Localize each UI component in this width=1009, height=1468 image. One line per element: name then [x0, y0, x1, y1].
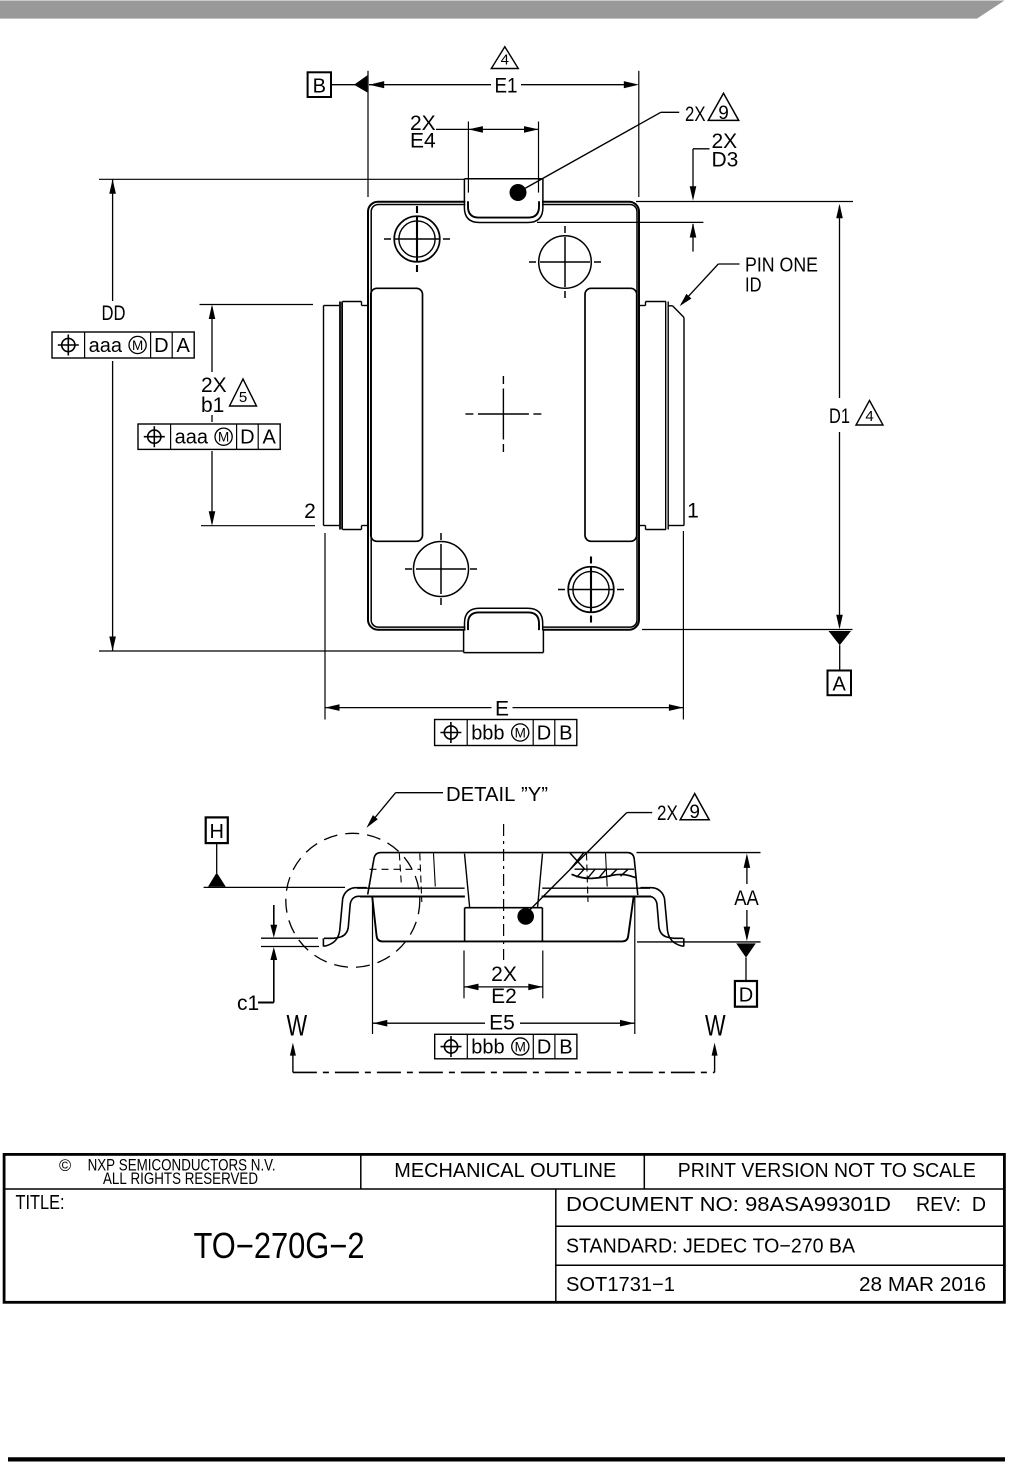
svg-text:A: A: [833, 674, 847, 696]
svg-text:9: 9: [689, 802, 700, 823]
svg-text:D: D: [537, 1037, 551, 1059]
PIN ONE ID leader: [680, 255, 818, 307]
center line (side): [503, 824, 505, 960]
leader 2X 9 (side): [517, 794, 709, 925]
svg-text:9: 9: [718, 103, 729, 124]
svg-text:B: B: [313, 75, 326, 97]
lower body: [372, 897, 633, 941]
svg-text:E1: E1: [495, 75, 518, 98]
svg-text:B: B: [559, 1037, 572, 1059]
dimension c1: [237, 905, 319, 1015]
svg-text:5: 5: [239, 389, 247, 406]
svg-text:DETAIL ”Y”: DETAIL ”Y”: [446, 784, 548, 806]
hole top-left (double circle): [384, 206, 450, 272]
svg-text:E: E: [495, 697, 509, 720]
svg-text:A: A: [263, 427, 277, 449]
header gray bar: [0, 1, 1005, 19]
svg-text:M: M: [218, 430, 229, 445]
svg-text:MECHANICAL OUTLINE: MECHANICAL OUTLINE: [394, 1160, 616, 1182]
svg-text:bbb: bbb: [471, 723, 504, 745]
datum flag H: [204, 817, 345, 887]
svg-text:4: 4: [501, 52, 509, 69]
body outline inner: [371, 205, 637, 628]
svg-text:2: 2: [304, 500, 316, 523]
lead pin 1 (right): [640, 302, 684, 530]
center tab (side): [465, 854, 543, 907]
feature frame bbb (top view): [435, 720, 577, 746]
leader 2X 9 (top view): [510, 93, 739, 201]
svg-text:aaa: aaa: [175, 427, 209, 449]
bottom rule: [8, 1457, 1005, 1461]
hole top-right: [529, 226, 601, 298]
svg-text:STANDARD: JEDEC TO−270 BA: STANDARD: JEDEC TO−270 BA: [566, 1236, 856, 1258]
svg-text:D1: D1: [829, 405, 850, 428]
svg-text:PIN ONE: PIN ONE: [745, 255, 818, 277]
svg-text:©: ©: [59, 1157, 71, 1175]
svg-text:M: M: [132, 338, 143, 353]
svg-text:A: A: [177, 335, 191, 357]
svg-text:TO−270G−2: TO−270G−2: [194, 1225, 365, 1266]
svg-text:2X: 2X: [657, 802, 678, 825]
svg-text:D: D: [739, 985, 753, 1007]
svg-text:4: 4: [865, 408, 873, 425]
left pad: [371, 288, 423, 541]
svg-text:b1: b1: [201, 394, 224, 417]
datum flag A: [828, 631, 852, 696]
svg-text:ALL RIGHTS RESERVED: ALL RIGHTS RESERVED: [103, 1170, 258, 1188]
pin1 hatched chamfer (side): [570, 853, 636, 903]
svg-text:AA: AA: [734, 887, 759, 910]
top mounting tab with notch: [464, 179, 543, 223]
feature frame aaa (upper): [52, 332, 194, 358]
svg-text:c1: c1: [237, 992, 259, 1015]
svg-text:E2: E2: [491, 985, 517, 1008]
svg-text:2X: 2X: [685, 103, 706, 126]
dimension E4: [410, 112, 539, 193]
svg-text:DOCUMENT NO: 98ASA99301D: DOCUMENT NO: 98ASA99301D: [566, 1194, 891, 1216]
center mark: [465, 376, 541, 452]
right pad: [585, 288, 637, 541]
svg-text:DD: DD: [102, 302, 126, 325]
svg-text:M: M: [515, 725, 526, 740]
datum flag B: [308, 72, 368, 97]
svg-text:2X: 2X: [491, 963, 517, 986]
dimension E: [325, 531, 683, 720]
svg-text:D: D: [240, 427, 254, 449]
hidden lines left: [370, 854, 436, 903]
dimension E5: [373, 897, 635, 1035]
section W-W: [287, 1010, 727, 1073]
dimension E1: [368, 47, 639, 197]
parting lines: [357, 888, 651, 896]
svg-text:PRINT VERSION NOT TO SCALE: PRINT VERSION NOT TO SCALE: [678, 1160, 976, 1182]
svg-text:M: M: [515, 1039, 526, 1054]
svg-text:D: D: [154, 335, 168, 357]
svg-text:B: B: [559, 723, 572, 745]
feature frame bbb (side view): [435, 1034, 577, 1059]
svg-text:TITLE:: TITLE:: [16, 1192, 65, 1214]
svg-text:1: 1: [687, 500, 699, 523]
hole bottom-left: [405, 533, 477, 605]
svg-text:W: W: [705, 1010, 726, 1043]
svg-text:aaa: aaa: [89, 335, 123, 357]
svg-text:REV: D: REV: D: [916, 1194, 986, 1216]
dimension DD: [99, 179, 464, 651]
title block: [4, 1154, 1004, 1302]
svg-text:28 MAR 2016: 28 MAR 2016: [859, 1274, 986, 1296]
side view body (mold): [368, 853, 638, 895]
datum flag D: [735, 943, 757, 1006]
dimension D3: [537, 130, 853, 252]
svg-text:ID: ID: [745, 275, 762, 297]
dimension b1: [200, 305, 316, 526]
svg-text:D: D: [537, 723, 551, 745]
svg-text:D3: D3: [712, 149, 739, 172]
svg-text:W: W: [287, 1010, 308, 1043]
svg-text:H: H: [209, 821, 223, 843]
svg-text:bbb: bbb: [471, 1037, 504, 1059]
bottom mounting tab with notch: [464, 608, 544, 652]
DETAIL Y label and leader: [366, 784, 548, 828]
body outline outer: [368, 202, 639, 630]
svg-text:E4: E4: [410, 130, 436, 153]
detail Y circle: [286, 833, 420, 967]
lead pin 2 (left): [324, 302, 368, 530]
dimension AA: [637, 853, 761, 942]
svg-text:E5: E5: [489, 1012, 515, 1035]
svg-text:SOT1731−1: SOT1731−1: [566, 1274, 675, 1296]
dimension D1: [642, 204, 883, 630]
exposed pad pedestal: [465, 908, 543, 942]
leads side view: [323, 888, 683, 947]
hole bottom-right (double circle): [558, 557, 624, 623]
feature frame aaa (lower): [138, 424, 280, 449]
dimension E2: [464, 951, 543, 1009]
